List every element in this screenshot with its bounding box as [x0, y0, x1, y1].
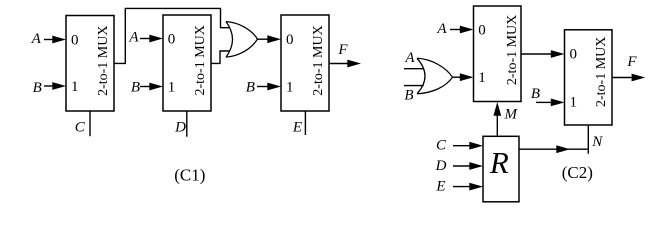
svg-text:1: 1 — [478, 70, 486, 86]
wire G2 output to U4 pin 1 — [453, 76, 461, 78]
svg-text:E: E — [292, 119, 302, 135]
svg-text:R: R — [489, 145, 509, 180]
arrowhead B into U3 pin 1 — [267, 83, 281, 91]
mux U1 box (2-to-1 MUX) — [66, 16, 114, 112]
arrowhead output F of U5 — [632, 74, 646, 82]
svg-text:1: 1 — [71, 79, 79, 95]
svg-text:A: A — [404, 50, 415, 66]
svg-text:D: D — [174, 120, 186, 136]
svg-text:B: B — [531, 86, 540, 102]
svg-text:C: C — [75, 119, 86, 135]
svg-text:2-to-1 MUX: 2-to-1 MUX — [594, 37, 609, 107]
wire input E to R — [453, 186, 470, 188]
svg-text:0: 0 — [478, 22, 486, 38]
svg-text:B: B — [246, 80, 255, 96]
svg-text:C: C — [436, 137, 447, 153]
wire select D below U2 — [186, 111, 188, 137]
mux U4 box (2-to-1 MUX) — [474, 6, 522, 102]
svg-text:(C2): (C2) — [562, 163, 593, 182]
arrowhead C into R — [469, 142, 483, 150]
wire input B to U3 pin 1 — [257, 86, 270, 88]
wire select E below U3 — [304, 111, 306, 135]
wire U3 output F — [329, 63, 349, 65]
arrowhead output F of U3 — [347, 60, 361, 68]
svg-text:F: F — [337, 42, 348, 58]
wire select C below U1 — [89, 111, 91, 136]
svg-text:A: A — [31, 31, 42, 47]
wire U4 output to U5 pin 0 — [521, 53, 552, 55]
svg-text:B: B — [404, 88, 413, 104]
wire G1 output to U3 pin 0 — [258, 38, 269, 40]
mux U2 box (2-to-1 MUX) — [163, 15, 211, 111]
arrowhead on wire R to N — [556, 145, 570, 153]
svg-text:0: 0 — [71, 32, 79, 48]
arrowhead G1 output into U3 pin 0 — [267, 35, 281, 43]
wire input A to OR gate G2 — [404, 68, 424, 70]
wire input C to R — [453, 145, 470, 147]
svg-text:B: B — [33, 80, 42, 96]
arrowhead B into U2 pin 1 — [149, 83, 163, 91]
svg-text:D: D — [435, 158, 447, 174]
wire input D to R — [453, 165, 470, 167]
arrowhead E into R — [469, 183, 483, 191]
svg-text:N: N — [591, 134, 603, 150]
svg-text:M: M — [504, 107, 519, 123]
svg-text:1: 1 — [168, 79, 176, 95]
svg-text:0: 0 — [286, 32, 294, 48]
or-gate G1 — [226, 22, 258, 58]
wire R output to node N — [519, 148, 588, 150]
arrowhead B into U1 pin 1 — [52, 82, 66, 90]
arrowhead G2 output into U4 pin 1 — [460, 73, 474, 81]
svg-text:A: A — [128, 30, 139, 46]
svg-text:2-to-1 MUX: 2-to-1 MUX — [96, 26, 111, 96]
svg-text:1: 1 — [570, 94, 578, 110]
svg-text:1: 1 — [286, 79, 294, 95]
wire U2 output to OR gate G1 bottom input — [211, 51, 230, 63]
wire input B to OR gate G2 — [404, 85, 424, 87]
arrowhead A into U4 pin 0 — [460, 26, 474, 34]
svg-text:(C1): (C1) — [174, 166, 205, 185]
wire input B to U5 pin 1 — [536, 101, 552, 103]
svg-text:0: 0 — [570, 46, 578, 62]
wire input B to U1 pin 1 — [44, 85, 54, 87]
arrowhead B into U5 pin 1 — [551, 99, 565, 107]
svg-text:0: 0 — [168, 31, 176, 47]
svg-text:2-to-1 MUX: 2-to-1 MUX — [193, 25, 208, 95]
wire U5 select to node N — [587, 125, 589, 154]
svg-text:E: E — [435, 178, 445, 194]
arrowhead A into U1 pin 0 — [52, 36, 66, 44]
mux U3 box (2-to-1 MUX) — [281, 15, 329, 111]
wire input A to U1 pin 0 — [44, 39, 54, 41]
svg-text:A: A — [436, 21, 447, 37]
or-gate G2 — [417, 58, 453, 94]
wire node M from R to U4 select — [496, 112, 498, 136]
svg-text:2-to-1 MUX: 2-to-1 MUX — [311, 25, 326, 95]
wire input A to U2 pin 0 — [140, 38, 152, 40]
svg-text:F: F — [626, 54, 637, 70]
arrowhead D into R — [469, 162, 483, 170]
svg-text:2-to-1 MUX: 2-to-1 MUX — [505, 15, 520, 85]
arrowhead M up into U4 select — [493, 102, 501, 116]
block R box — [483, 136, 519, 202]
wire U5 output F — [612, 77, 633, 79]
wire input B to U2 pin 1 — [140, 86, 152, 88]
svg-text:B: B — [131, 80, 140, 96]
mux U5 box (2-to-1 MUX) — [565, 30, 613, 125]
arrowhead U4 output into U5 pin 0 — [551, 50, 565, 58]
wire U1 output to OR gate G1 top input (via top rail) — [114, 8, 230, 63]
wire input A to U4 pin 0 — [450, 29, 461, 31]
arrowhead A into U2 pin 0 — [149, 35, 163, 43]
